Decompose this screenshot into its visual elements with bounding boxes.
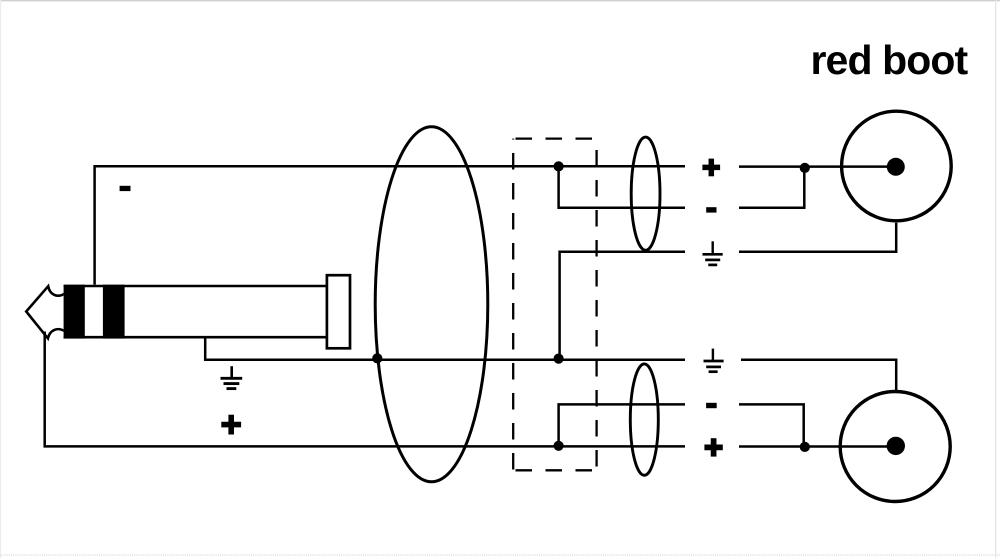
label: minus (lower RCA return) [706,403,717,408]
wire: tip conductor, left vertical + bottom rail to splice [45,332,685,447]
label: minus (upper RCA return) [706,207,716,212]
shield twist (small ellipse, upper pair) [631,137,660,250]
junction: upper minus joins hot [800,163,810,173]
ground symbol (at jack sleeve) [221,366,243,388]
RCA connector (lower) center pin [887,437,905,455]
wire: lower ground lead to RCA shell [741,360,896,390]
junction: lower minus joins hot [800,442,810,452]
wire: upper hot lead into RCA pin [739,165,893,168]
RCA connector (upper, red boot) shell [842,111,952,221]
label: plus (upper RCA hot) [702,159,720,177]
cable jacket (large ellipse) [375,127,488,482]
wire: sleeve from barrel to splice [205,337,685,360]
label: minus (top left) [120,186,131,191]
ground symbol (lower shield) [704,349,724,372]
wire: lower hot lead into RCA pin [739,445,893,448]
wire: branch from bottom rail up to lower minus lead [559,404,685,445]
wire: upper ground lead from sleeve junction [560,252,685,357]
splice region (dashed box) [513,139,596,471]
junction: shield joins cable jacket [372,353,382,363]
wire: ring conductor, left vertical + top rail to splice [95,166,685,287]
label: plus (lower RCA hot) [704,438,722,456]
RCA connector (lower) shell [840,392,950,502]
wire: lower minus lead down to hot junction [739,404,804,444]
svg-text:red boot: red boot [811,37,969,83]
label: plus (at jack tip wire) [221,415,241,435]
junction: bottom rail to lower minus branch [554,441,564,451]
wire: branch from top rail down to upper minus lead [559,166,685,207]
junction: sleeve rail to upper ground branch [554,354,564,364]
TRS stereo jack plug [26,275,350,348]
shield twist (small ellipse, lower pair) [630,364,658,475]
ground symbol (upper shield) [703,241,723,265]
RCA connector (upper) center pin [887,158,905,176]
wire: upper ground lead to RCA shell [739,223,896,252]
junction: top rail to white-lead branch [554,161,564,171]
wire: upper minus lead up to hot junction [739,170,804,208]
